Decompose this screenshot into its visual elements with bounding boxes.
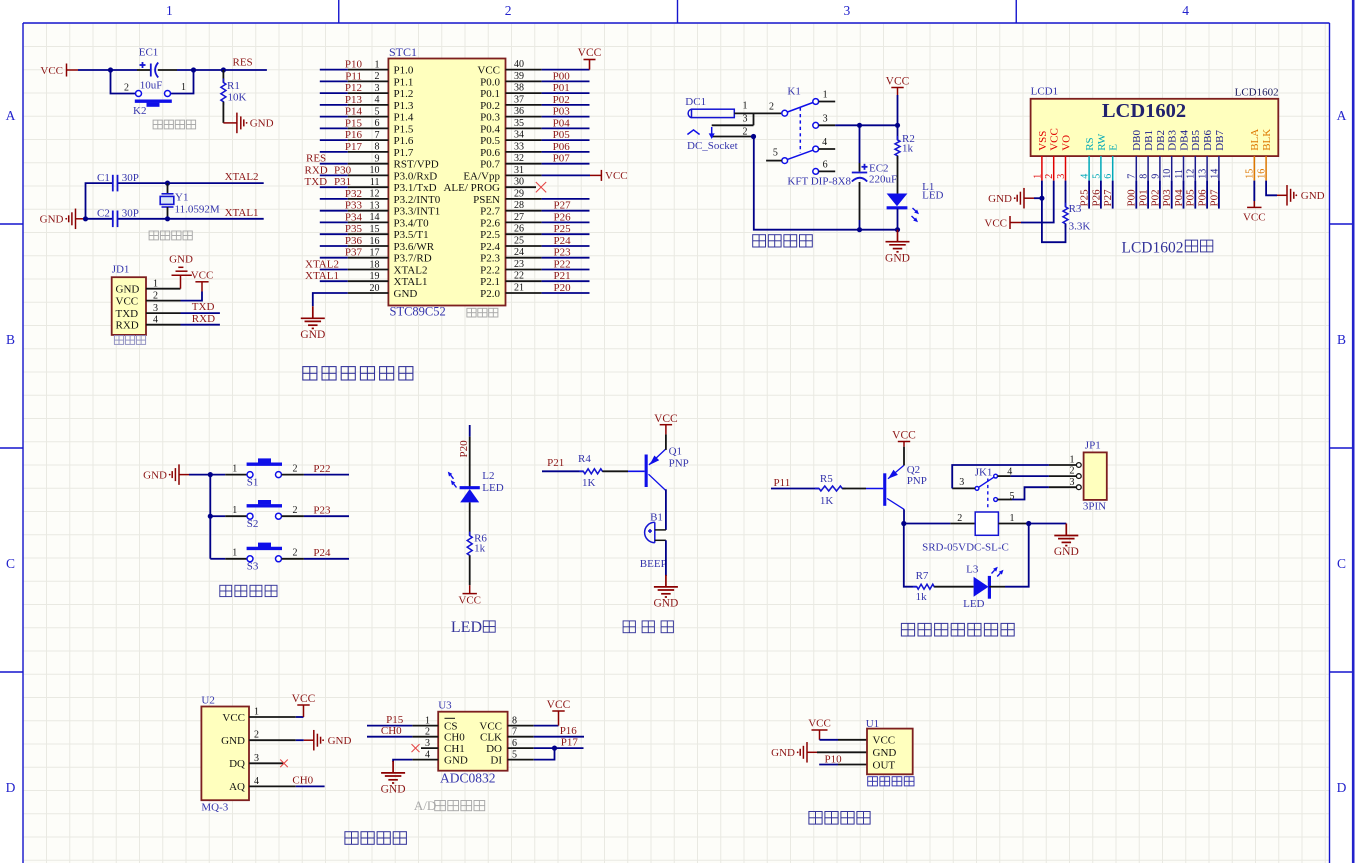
svg-text:P16: P16 [560, 725, 578, 737]
svg-text:CH0: CH0 [381, 725, 402, 737]
svg-text:GND: GND [771, 747, 795, 759]
svg-text:P0.2: P0.2 [480, 100, 500, 112]
svg-text:C: C [6, 556, 15, 571]
pin S2-2 [282, 515, 304, 517]
svg-text:3: 3 [844, 3, 851, 18]
title 继电器控制电路 [901, 623, 1014, 636]
ground GND (pin20) [301, 306, 325, 328]
relay JK1 coil [975, 512, 998, 535]
svg-text:GND: GND [40, 214, 64, 226]
wire P10 to U1 [819, 764, 838, 766]
svg-text:TXD: TXD [192, 301, 215, 313]
pin U3 right [508, 736, 534, 738]
ground GND (LCD) [1014, 188, 1034, 209]
junction [901, 521, 906, 526]
svg-text:GND: GND [143, 469, 167, 481]
svg-text:DC1: DC1 [685, 96, 706, 108]
svg-text:P16: P16 [345, 129, 363, 141]
svg-text:DB4: DB4 [1178, 130, 1190, 151]
LCD1 net labels (rotated) [1079, 189, 1221, 207]
pin DC1-2 [712, 136, 754, 138]
svg-text:2: 2 [293, 548, 298, 559]
svg-text:ADC0832: ADC0832 [440, 771, 496, 786]
svg-text:38: 38 [514, 83, 524, 94]
power port VCC (pin40) [584, 60, 596, 70]
svg-text:CH0: CH0 [444, 732, 465, 744]
wire U3-6 P17 [534, 747, 584, 749]
svg-text:35: 35 [514, 118, 524, 129]
pin U1 VCC [838, 739, 867, 741]
svg-text:LCD1602: LCD1602 [1235, 87, 1279, 99]
ground GND (U3) [381, 761, 405, 783]
JP1 pin numbers [1070, 455, 1075, 489]
LCD1 pin names (rotated) [1037, 128, 1273, 151]
junction [221, 67, 226, 72]
pin U2-1 [249, 716, 296, 718]
wire U3-7 P16 [534, 736, 584, 738]
svg-text:P37: P37 [345, 247, 363, 259]
wire K1-3 to VCC node [835, 124, 897, 126]
power port VCC (LCD) [1010, 216, 1021, 229]
wire R3 to GND node [1042, 198, 1066, 242]
pin Q2 emitter [903, 447, 905, 466]
svg-text:P3.0/RxD: P3.0/RxD [394, 170, 438, 182]
ground GND (relay) [1054, 524, 1078, 546]
STC1 right pins 40-21 [506, 70, 542, 293]
connector DC1 barrel [688, 109, 734, 117]
svg-text:P2.7: P2.7 [480, 206, 500, 218]
wire K2 pin1 up [171, 70, 194, 94]
svg-text:3: 3 [823, 114, 828, 125]
svg-text:A: A [6, 108, 16, 123]
svg-text:XTAL2: XTAL2 [394, 264, 428, 276]
svg-text:P23: P23 [554, 247, 572, 259]
svg-text:VCC: VCC [116, 295, 139, 307]
pin U2-4 [249, 785, 296, 787]
pin U2-3 [249, 762, 283, 764]
svg-text:23: 23 [514, 259, 524, 270]
title 独立按键 [220, 585, 277, 596]
svg-text:1K: 1K [820, 495, 834, 507]
svg-text:30P: 30P [122, 172, 139, 184]
svg-text:VCC: VCC [458, 595, 481, 607]
power port VCC (U1) [812, 730, 828, 740]
wire C2 to XTAL1 [118, 218, 264, 220]
svg-text:R1: R1 [227, 80, 240, 92]
capacitor EC2 [852, 164, 868, 182]
svg-text:27: 27 [514, 212, 524, 223]
svg-text:P13: P13 [345, 94, 363, 106]
svg-text:VCC: VCC [605, 170, 628, 182]
svg-text:XTAL2: XTAL2 [225, 171, 259, 183]
U2 pin names [221, 712, 245, 793]
junction [208, 472, 213, 477]
svg-text:GND: GND [116, 284, 140, 296]
svg-text:K2: K2 [133, 105, 146, 117]
pin S2-1 [225, 515, 247, 517]
svg-text:P02: P02 [553, 94, 570, 106]
pin S3-2 [282, 558, 304, 560]
wire L3 to coil node [1005, 524, 1029, 587]
svg-text:JP1: JP1 [1085, 440, 1101, 452]
svg-text:P0.6: P0.6 [480, 147, 500, 159]
wire VO to R3 [1065, 181, 1067, 207]
svg-text:1: 1 [232, 464, 237, 475]
resistor R1 [221, 79, 226, 106]
svg-text:VCC: VCC [40, 65, 63, 77]
svg-text:1: 1 [1070, 455, 1075, 466]
wire GND to VSS [1034, 197, 1042, 199]
svg-text:2: 2 [769, 102, 774, 113]
pin Q1 emitter [665, 434, 667, 450]
caption 晶振电路 [149, 231, 192, 240]
pin EC1 left [137, 69, 151, 71]
pin U3 left [412, 759, 438, 761]
svg-text:P24: P24 [313, 547, 331, 559]
pin EC2 bottom [859, 182, 861, 220]
svg-text:P36: P36 [345, 235, 363, 247]
svg-text:S2: S2 [247, 518, 259, 530]
wire P11 to R5 [771, 488, 819, 490]
svg-text:XTAL1: XTAL1 [305, 270, 339, 282]
wire S3 to P24 [304, 558, 349, 560]
svg-text:BEEP: BEEP [640, 558, 667, 570]
pin S1-1 [225, 474, 247, 476]
svg-text:RST/VPD: RST/VPD [394, 159, 439, 171]
svg-text:P22: P22 [554, 259, 571, 271]
pin JK1-5 [998, 499, 1013, 501]
resistor R7 [913, 584, 938, 589]
svg-text:GND: GND [300, 329, 325, 341]
svg-text:4: 4 [254, 776, 259, 787]
power port VCC (reset) [67, 64, 79, 77]
pin JK1-4 [998, 475, 1011, 477]
svg-text:LED: LED [482, 482, 503, 494]
svg-text:1k: 1k [902, 143, 914, 155]
svg-text:P1.3: P1.3 [394, 100, 414, 112]
svg-text:R5: R5 [820, 473, 833, 485]
svg-text:28: 28 [514, 200, 524, 211]
svg-text:P1.1: P1.1 [394, 76, 414, 88]
wire P15 to U3-1 [367, 725, 412, 727]
svg-text:P01: P01 [553, 82, 570, 94]
power port VCC (relay) [898, 442, 910, 447]
svg-text:VCC: VCC [1049, 128, 1061, 151]
svg-text:P2.4: P2.4 [480, 241, 500, 253]
svg-text:1: 1 [743, 101, 748, 112]
svg-text:P35: P35 [345, 223, 363, 235]
svg-text:1k: 1k [474, 543, 486, 555]
svg-text:DB0: DB0 [1131, 130, 1143, 151]
switch K1 [782, 99, 819, 175]
pin JD1 [146, 300, 181, 302]
svg-text:P15: P15 [345, 117, 363, 129]
svg-text:P32: P32 [345, 188, 362, 200]
title 酒精检测 [345, 832, 407, 845]
svg-text:P3.2/INT0: P3.2/INT0 [394, 194, 441, 206]
power port VCC (buzzer) [660, 425, 672, 435]
svg-text:LED: LED [963, 598, 984, 610]
svg-text:C: C [1337, 556, 1346, 571]
svg-text:P01: P01 [1138, 189, 1150, 206]
svg-text:ALE/ PROG: ALE/ PROG [443, 182, 500, 194]
wire to K2 pin2 [111, 70, 136, 94]
svg-text:P06: P06 [1197, 189, 1209, 207]
svg-text:P1.5: P1.5 [394, 123, 414, 135]
svg-text:220uF: 220uF [869, 174, 897, 186]
svg-text:P12: P12 [345, 82, 362, 94]
svg-text:LCD1602: LCD1602 [1102, 100, 1186, 122]
svg-text:PNP: PNP [669, 457, 689, 469]
svg-text:P31: P31 [334, 176, 351, 188]
svg-text:DB6: DB6 [1202, 130, 1214, 151]
svg-text:RXD: RXD [192, 313, 215, 325]
svg-text:GND: GND [381, 784, 406, 796]
STC1 pin numbers [370, 59, 525, 294]
svg-text:P04: P04 [553, 117, 571, 129]
wire U2-1 to VCC [296, 716, 304, 718]
svg-text:RW: RW [1096, 133, 1108, 151]
svg-text:L2: L2 [482, 470, 494, 482]
svg-text:P30: P30 [334, 164, 352, 176]
junction [165, 181, 170, 186]
svg-text:3: 3 [959, 477, 964, 488]
wire P20 [469, 425, 471, 437]
svg-text:PSEN: PSEN [473, 194, 500, 206]
ground GND (U2) [304, 730, 324, 751]
svg-text:P10: P10 [825, 753, 843, 765]
pin EC1 right [158, 69, 177, 71]
svg-text:TXD: TXD [305, 176, 328, 188]
svg-text:U3: U3 [438, 700, 452, 712]
pin R5 right [842, 488, 866, 490]
svg-text:GND: GND [653, 598, 678, 610]
svg-text:P2.5: P2.5 [480, 229, 500, 241]
svg-text:C2: C2 [97, 207, 110, 219]
wire P21 to R4 [542, 470, 583, 472]
wire down to R7 [904, 524, 917, 587]
svg-text:1K: 1K [582, 477, 596, 489]
junction [895, 227, 900, 232]
wire U3-4 to GND [393, 760, 412, 762]
svg-text:1k: 1k [916, 591, 928, 603]
svg-text:P20: P20 [458, 440, 470, 458]
svg-text:GND: GND [169, 254, 193, 266]
junction [857, 123, 862, 128]
K1 pin numbers [769, 90, 828, 171]
svg-text:P04: P04 [1173, 189, 1185, 207]
svg-text:GND: GND [988, 193, 1012, 205]
LCD1 pins [1042, 156, 1266, 181]
wire keys common [209, 475, 211, 559]
svg-text:D: D [1337, 780, 1347, 795]
wire JK1-5 to JP1-3 [1012, 487, 1049, 499]
svg-text:2: 2 [1070, 466, 1075, 477]
title 人体红外 [809, 812, 870, 825]
svg-text:25: 25 [514, 235, 524, 246]
STC1 right wires [542, 70, 590, 293]
wire U3-8 to VCC [534, 725, 559, 727]
svg-text:P02: P02 [1149, 189, 1161, 206]
svg-text:K1: K1 [787, 86, 800, 98]
svg-text:5: 5 [773, 148, 778, 159]
svg-text:VCC: VCC [984, 217, 1007, 229]
junction [165, 216, 170, 221]
svg-text:22: 22 [514, 271, 524, 282]
svg-text:LCD1602: LCD1602 [1122, 240, 1184, 257]
svg-text:P1.0: P1.0 [394, 65, 414, 77]
svg-text:P2.0: P2.0 [480, 288, 500, 300]
svg-text:1: 1 [823, 90, 828, 101]
svg-text:DB7: DB7 [1214, 130, 1226, 151]
svg-text:VCC: VCC [1243, 212, 1266, 224]
svg-text:BLA: BLA [1249, 129, 1261, 151]
svg-text:VO: VO [1060, 135, 1072, 151]
wire S2 to P23 [304, 515, 349, 517]
IC U2 body [201, 707, 249, 801]
LED L2 [448, 472, 480, 503]
wire to relay coil [904, 523, 951, 525]
no-ERC marker U3-3 [412, 744, 420, 752]
pin R4 right [602, 470, 628, 472]
pin Y1 bottom [167, 207, 169, 219]
wire coil to GND [1029, 523, 1067, 525]
svg-text:RES: RES [306, 153, 326, 165]
junction [191, 67, 196, 72]
junction [857, 227, 862, 232]
svg-text:RS: RS [1084, 137, 1096, 150]
svg-text:VCC: VCC [191, 269, 214, 281]
svg-text:P1.6: P1.6 [394, 135, 414, 147]
svg-text:LED: LED [922, 190, 943, 202]
svg-text:P06: P06 [553, 141, 571, 153]
svg-text:GND: GND [444, 754, 468, 766]
wire EC1 to RES/R1 [177, 69, 267, 71]
ground GND (keys) [169, 464, 189, 485]
svg-text:P0.0: P0.0 [480, 76, 500, 88]
DC1 switch contact mark [687, 127, 714, 139]
svg-text:P10: P10 [345, 59, 363, 71]
svg-text:1: 1 [181, 82, 186, 93]
svg-text:JK1: JK1 [975, 467, 993, 479]
power port VCC (U2) [297, 705, 309, 717]
capacitor C1 [113, 175, 118, 192]
svg-text:40: 40 [514, 59, 524, 70]
ground GND (crystal) [65, 209, 85, 230]
svg-text:GND: GND [1054, 546, 1079, 558]
svg-text:21: 21 [514, 282, 524, 293]
wire common to S2 [210, 515, 225, 517]
switch S2 [247, 500, 282, 519]
svg-text:10uF: 10uF [140, 80, 163, 92]
IC U3 body [438, 712, 507, 771]
wire VCC to R2 [897, 95, 899, 140]
svg-text:P2.3: P2.3 [480, 253, 500, 265]
wire pin31 [542, 174, 590, 176]
svg-text:4: 4 [822, 137, 827, 148]
wire BLK to GND [1266, 181, 1277, 196]
svg-text:LED: LED [451, 619, 482, 636]
connector JD1 body [112, 277, 146, 335]
pin DC1 tie 1-3 [753, 113, 755, 125]
wire Q1 collector to B1 [665, 489, 667, 530]
svg-text:VSS: VSS [1037, 131, 1049, 151]
svg-text:3PIN: 3PIN [1083, 501, 1106, 513]
wire VSS down [1041, 181, 1043, 199]
pin U3 right [508, 725, 534, 727]
U2 pin numbers [254, 707, 259, 787]
transistor Q2 [866, 465, 904, 509]
svg-text:R7: R7 [916, 570, 929, 582]
svg-text:GND: GND [221, 735, 245, 747]
wire JD1 pin2 to VCC [181, 292, 203, 301]
svg-text:P1.2: P1.2 [394, 88, 414, 100]
svg-text:BLK: BLK [1261, 129, 1273, 151]
svg-text:P05: P05 [553, 129, 571, 141]
resistor R6 [467, 532, 472, 559]
wire CH0 to U3-2 [367, 736, 412, 738]
pin L3 right [989, 586, 1005, 588]
wire C1 to XTAL2 [118, 182, 264, 184]
svg-text:VCC: VCC [547, 699, 571, 711]
svg-text:P2.6: P2.6 [480, 217, 500, 229]
pin JD1 [146, 312, 181, 314]
svg-text:6: 6 [823, 160, 828, 171]
pin R7 to L3 [934, 586, 973, 588]
svg-text:P05: P05 [1185, 189, 1197, 207]
svg-text:P21: P21 [547, 457, 564, 469]
svg-text:3.3K: 3.3K [1069, 221, 1091, 233]
svg-text:S1: S1 [247, 477, 259, 489]
wire B1 to GND [665, 540, 667, 576]
svg-text:PNP: PNP [907, 475, 927, 487]
svg-text:1: 1 [232, 505, 237, 516]
buzzer B1 [645, 522, 666, 542]
power port VCC (LED lamp) [463, 585, 477, 593]
svg-text:OUT: OUT [873, 759, 896, 771]
svg-text:L3: L3 [966, 564, 979, 576]
svg-text:32: 32 [514, 153, 524, 164]
svg-text:VCC: VCC [292, 693, 316, 705]
svg-text:VCC: VCC [892, 430, 916, 442]
IC U-STC1 body [388, 59, 505, 306]
svg-text:36: 36 [514, 106, 524, 117]
pin EC2 top [859, 163, 861, 172]
svg-text:P27: P27 [554, 200, 572, 212]
svg-text:37: 37 [514, 94, 524, 105]
wire VCC to U1 [820, 739, 839, 741]
svg-text:P1.4: P1.4 [394, 112, 414, 124]
svg-text:P3.6/WR: P3.6/WR [394, 241, 435, 253]
svg-text:DI: DI [490, 754, 502, 766]
svg-text:EA/Vpp: EA/Vpp [463, 170, 500, 182]
power port VCC (JD1) [195, 282, 208, 292]
wire pin20 to GND [313, 293, 348, 306]
no-ERC marker pin30 [536, 182, 546, 192]
wire U2-4 CH0 [296, 785, 325, 787]
U1 pin names [873, 735, 897, 772]
ground GND (JD1 pin1) [172, 267, 192, 288]
pin U3 right [508, 747, 534, 749]
svg-text:P3.1/TxD: P3.1/TxD [394, 182, 437, 194]
junction [108, 67, 113, 72]
JD1 pin names [116, 284, 140, 332]
svg-text:GND: GND [394, 288, 418, 300]
junction [552, 746, 557, 751]
pin K1-4 [819, 148, 836, 150]
svg-text:P00: P00 [1126, 189, 1138, 207]
svg-text:P17: P17 [345, 141, 363, 153]
